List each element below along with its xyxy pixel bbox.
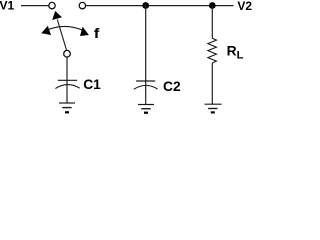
switch throw contact 1 <box>49 2 55 8</box>
wire top node to RL <box>211 6 213 39</box>
switch pole contact <box>64 50 71 57</box>
wire throw 2 to V2 <box>86 5 233 7</box>
ground under C1 <box>59 103 75 112</box>
ground under C2 <box>138 105 154 113</box>
wire RL to ground <box>211 63 213 104</box>
wire V1 to switch throw 1 <box>21 5 49 7</box>
svg-text:V2: V2 <box>237 0 252 13</box>
junction node at RL <box>209 2 216 9</box>
capacitor C1 <box>55 80 79 88</box>
ground under RL <box>205 104 222 112</box>
svg-text:C2: C2 <box>163 79 181 94</box>
resistor RL <box>208 38 217 63</box>
capacitor C2 <box>134 81 158 89</box>
wire switch pole to C1 <box>66 57 68 84</box>
svg-text:f: f <box>94 25 100 41</box>
wire C2 to ground <box>145 85 147 104</box>
svg-text:V1: V1 <box>0 0 15 13</box>
junction node at C2 <box>142 2 149 9</box>
wire top node to C2 <box>145 6 147 86</box>
wire C1 to ground <box>66 85 68 103</box>
switch sweep arrow (toggle) <box>41 26 89 36</box>
switch S1 lever with arrowhead <box>52 11 66 50</box>
switch throw contact 2 <box>79 2 85 8</box>
svg-text:RL: RL <box>227 44 244 62</box>
svg-text:C1: C1 <box>83 77 101 92</box>
